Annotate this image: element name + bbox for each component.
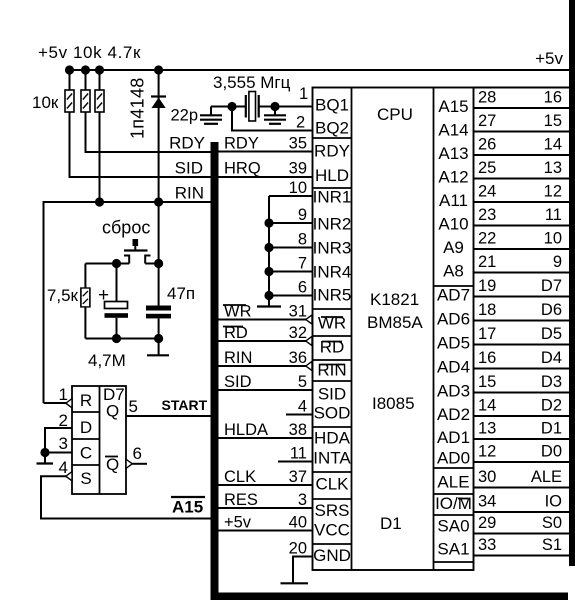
svg-text:RIN: RIN [175,184,204,203]
svg-text:RDY: RDY [169,134,205,153]
svg-text:A11: A11 [439,191,468,210]
wire pin23 A10 to bus 11 [474,225,570,227]
svg-text:22: 22 [478,230,496,248]
wire C input [45,452,72,454]
wire crystal node right to pin 1 [259,106,312,108]
svg-text:S: S [80,469,91,488]
svg-text:10: 10 [544,230,562,248]
wire INR chain vertical [268,196,270,307]
wire R2 to RDY line [86,112,211,152]
node dot R2 top [81,65,90,74]
svg-text:SOD: SOD [314,404,351,423]
svg-text:3: 3 [298,491,307,509]
svg-text:CLK: CLK [224,468,256,486]
ground symbol GND [281,582,309,584]
svg-text:9: 9 [298,206,307,224]
wire pin22 A9 to bus 10 [474,248,570,250]
svg-text:A9: A9 [443,238,464,257]
svg-text:BQ2: BQ2 [315,119,349,138]
svg-text:RDY: RDY [224,135,259,153]
svg-text:+5v: +5v [224,514,252,532]
svg-text:39: 39 [289,160,307,178]
wire SOD pin4 [286,414,312,416]
wire pin15 AD3 to bus D3 [474,392,570,394]
right bus bar [569,0,575,566]
svg-text:15: 15 [478,373,496,391]
svg-text:+5v 10k 4.7к: +5v 10k 4.7к [38,43,141,62]
svg-text:28: 28 [478,89,496,107]
svg-text:4,7M: 4,7M [88,351,126,370]
svg-text:ALE: ALE [531,468,562,486]
wire RIN pin36 [219,365,313,367]
node dot diode top [154,65,163,74]
svg-text:сброс: сброс [102,218,150,238]
svg-text:40: 40 [289,514,307,532]
wire RES pin3 [219,507,313,509]
svg-text:D2: D2 [541,397,562,415]
svg-text:7,5к: 7,5к [47,286,79,305]
wire pin29 S0 to bus S0 [474,533,570,535]
svg-text:11: 11 [545,206,562,224]
svg-text:VCC: VCC [314,521,350,540]
wire pin25 A12 to bus 13 [474,178,570,180]
svg-text:RDY: RDY [314,142,350,161]
svg-text:RES: RES [224,491,258,509]
wire INR2 pin9 [269,222,312,224]
svg-text:AD3: AD3 [437,382,470,401]
svg-text:AD1: AD1 [437,428,470,447]
wire S input to A15 wire [41,476,211,518]
wire HRQ pin39 [219,176,313,178]
svg-text:BQ1: BQ1 [315,96,349,115]
svg-text:1: 1 [59,385,68,404]
wire pin19 AD7 to bus D7 [474,296,570,298]
svg-text:3,555 Мгц: 3,555 Мгц [213,73,291,92]
node dot crystal left [227,102,236,111]
svg-text:INR1: INR1 [313,188,352,207]
wire pin16 AD4 to bus D4 [474,368,570,370]
wire R3 down to RIN line [99,112,101,202]
svg-text:IO/M: IO/M [435,494,472,513]
resistor R2 [85,70,87,90]
svg-text:D4: D4 [541,349,562,367]
node dot 47n top [154,259,163,268]
svg-text:A14: A14 [438,121,468,140]
svg-text:SRS: SRS [315,501,350,520]
wire Q output START [126,415,211,417]
wedge Q-bar output [126,459,132,468]
svg-text:6: 6 [133,444,142,463]
svg-text:HLDA: HLDA [224,421,268,439]
capacitor C3 electrolytic [116,264,118,302]
svg-text:+5v: +5v [535,49,563,68]
node dot C3 top [112,259,121,268]
svg-text:31: 31 [289,303,307,321]
wire R1 to SID line [70,112,211,177]
wire pin14 AD2 to bus D2 [474,415,570,417]
wire pin17 AD5 to bus D5 [474,344,570,346]
svg-text:12: 12 [478,443,496,461]
svg-text:RIN: RIN [224,349,252,367]
wire pin28 A15 to bus 16 [474,107,570,109]
wire RDY pin35 [219,151,313,153]
wire INR4 pin7 [269,271,312,273]
wire crystal node left [211,106,246,108]
resistor R3 [99,70,101,90]
svg-text:D: D [80,418,92,437]
wire crystal to pin 2 [232,107,312,131]
svg-text:20: 20 [289,540,307,558]
svg-text:D6: D6 [541,301,562,319]
node dot RIN-R3 [95,197,104,206]
node dot RIN-diode [154,197,163,206]
wire button right node [145,263,158,265]
svg-text:21: 21 [478,253,496,271]
svg-text:A8: A8 [443,262,464,281]
wire pin21 A8 to bus 9 [474,272,570,274]
svg-text:HLD: HLD [315,166,349,185]
svg-text:S1: S1 [542,536,562,554]
svg-text:D1: D1 [541,420,562,438]
svg-text:SID: SID [318,385,346,404]
svg-text:HRQ: HRQ [224,160,261,178]
left bus bar [211,142,219,600]
node dot D-C tie [40,448,49,457]
svg-text:1п4148: 1п4148 [128,77,148,139]
chip left pin column [351,88,353,571]
svg-text:14: 14 [544,136,562,154]
svg-text:13: 13 [478,420,496,438]
svg-text:Q: Q [106,455,119,474]
wire SID pin5 [219,389,313,391]
wire RC bottom [85,338,158,340]
svg-text:23: 23 [478,206,496,224]
node dot crystal right [270,102,279,111]
svg-text:9: 9 [553,253,562,271]
svg-text:17: 17 [478,325,496,343]
wire CLK pin37 [219,484,313,486]
svg-text:A13: A13 [438,144,468,163]
resistor R1 [69,70,71,90]
wedge S input [66,472,72,481]
wire INR1 pin10 [269,195,312,197]
svg-text:INR3: INR3 [313,239,352,258]
wire pin34 IO to bus IO [474,511,570,513]
wire diode column down to RC [158,202,160,306]
svg-text:AD5: AD5 [437,334,470,353]
wire WR pin31 [219,319,313,321]
svg-text:D3: D3 [541,373,562,391]
crystal ZQ1 [249,92,256,122]
node dot R1 top [65,65,74,74]
wire pin24 A11 to bus 12 [474,201,570,203]
ground under 47n [147,354,169,356]
wire INTA pin11 [278,461,312,463]
wire pin30 ALE to bus ALE [474,487,570,489]
svg-text:26: 26 [478,136,496,154]
svg-text:5: 5 [129,397,138,416]
svg-text:SA1: SA1 [437,540,469,559]
svg-text:34: 34 [478,493,496,511]
wire pin27 A14 to bus 15 [474,131,570,133]
svg-text:35: 35 [289,135,307,153]
svg-text:13: 13 [544,159,562,177]
svg-text:R: R [80,391,92,410]
svg-text:RD: RD [320,338,345,357]
svg-text:4: 4 [59,458,68,477]
svg-text:D5: D5 [541,325,562,343]
svg-text:D0: D0 [541,443,562,461]
capacitor C2 right of crystal [274,107,276,115]
svg-text:19: 19 [478,277,496,295]
svg-text:BM85A: BM85A [367,313,423,332]
svg-text:AD0: AD0 [437,449,470,468]
bottom bus bar [211,593,569,600]
node dot R3 top [95,65,104,74]
wire INR5 pin6 [269,295,312,297]
svg-text:HDA: HDA [314,429,351,448]
svg-text:INR5: INR5 [313,286,352,305]
svg-text:16: 16 [544,89,562,107]
svg-text:I8085: I8085 [372,394,415,413]
svg-text:18: 18 [478,301,496,319]
svg-text:8: 8 [298,231,307,249]
svg-text:A10: A10 [438,215,468,234]
svg-text:SID: SID [175,159,203,178]
wire RD pin32 [219,340,313,342]
svg-text:24: 24 [478,183,496,201]
wedge R input [66,399,72,408]
svg-text:CLK: CLK [315,475,349,494]
ground tick D-C tie [44,453,46,464]
svg-text:A15: A15 [438,97,468,116]
svg-text:C: C [80,444,92,463]
svg-text:START: START [162,397,208,413]
svg-text:INTA: INTA [313,449,351,468]
svg-text:CPU: CPU [377,105,413,124]
svg-text:3: 3 [59,434,68,453]
svg-text:AD6: AD6 [437,310,470,329]
svg-text:K1821: K1821 [370,290,419,309]
svg-text:7: 7 [298,255,307,273]
svg-text:RIN: RIN [317,361,346,380]
svg-text:47п: 47п [167,284,195,303]
svg-text:SA0: SA0 [437,517,469,536]
node dot 47n bottom [154,334,163,343]
wire +5v rail [69,69,569,71]
svg-text:5: 5 [298,373,307,391]
svg-text:29: 29 [478,514,496,532]
svg-text:12: 12 [544,183,562,201]
svg-text:10: 10 [289,179,307,197]
svg-text:36: 36 [289,349,307,367]
svg-text:6: 6 [298,279,307,297]
svg-text:IO: IO [545,493,563,511]
svg-text:Q: Q [106,402,119,421]
svg-text:S0: S0 [542,514,562,532]
node dot C3 bottom [112,334,121,343]
svg-text:16: 16 [478,349,496,367]
wire R input [44,402,67,404]
svg-text:AD7: AD7 [437,286,470,305]
wire Q-bar stub [132,463,147,465]
wire pin26 A13 to bus 14 [474,154,570,156]
svg-text:AD4: AD4 [437,358,470,377]
flip-flop D7 outer box [72,386,126,494]
svg-text:15: 15 [544,112,562,130]
svg-text:32: 32 [289,324,307,342]
wire D input [45,428,72,453]
svg-text:22p: 22p [170,107,198,125]
svg-text:SID: SID [224,373,252,391]
svg-text:25: 25 [478,159,496,177]
wire pin12 AD0 to bus D0 [474,461,570,463]
svg-text:33: 33 [478,536,496,554]
svg-text:GND: GND [313,546,351,565]
svg-text:27: 27 [478,112,496,130]
CPU chip U1 outline [313,88,474,571]
chip right pin column [433,88,435,571]
capacitor C4 47n [146,306,171,311]
svg-text:2: 2 [296,114,305,132]
svg-text:37: 37 [289,468,307,486]
wire +5v pin40 [219,530,313,532]
svg-text:38: 38 [289,421,307,439]
svg-text:1: 1 [299,85,308,103]
svg-text:D1: D1 [380,514,402,533]
svg-text:4: 4 [298,398,307,416]
wire button left node [85,263,129,265]
svg-text:14: 14 [478,397,496,415]
svg-text:A15: A15 [172,498,203,517]
capacitor 22p [210,107,212,115]
wire INR3 pin8 [269,247,312,249]
svg-text:AD2: AD2 [437,405,470,424]
svg-text:INR2: INR2 [313,215,352,234]
wire pin13 AD1 to bus D1 [474,438,570,440]
svg-text:11: 11 [290,445,307,463]
wire HLDA pin38 [219,437,313,439]
svg-text:30: 30 [478,468,496,486]
svg-text:10к: 10к [32,93,59,112]
svg-text:INR4: INR4 [313,263,352,282]
wire pin33 S1 to bus S1 [474,555,570,557]
svg-text:ALE: ALE [437,473,469,492]
svg-text:D7: D7 [541,277,562,295]
diode VD1 1n4148 [158,70,160,202]
svg-text:A12: A12 [438,168,468,187]
wire pin18 AD6 to bus D6 [474,320,570,322]
wire RIN line [44,202,211,403]
right cells top border [474,87,570,89]
